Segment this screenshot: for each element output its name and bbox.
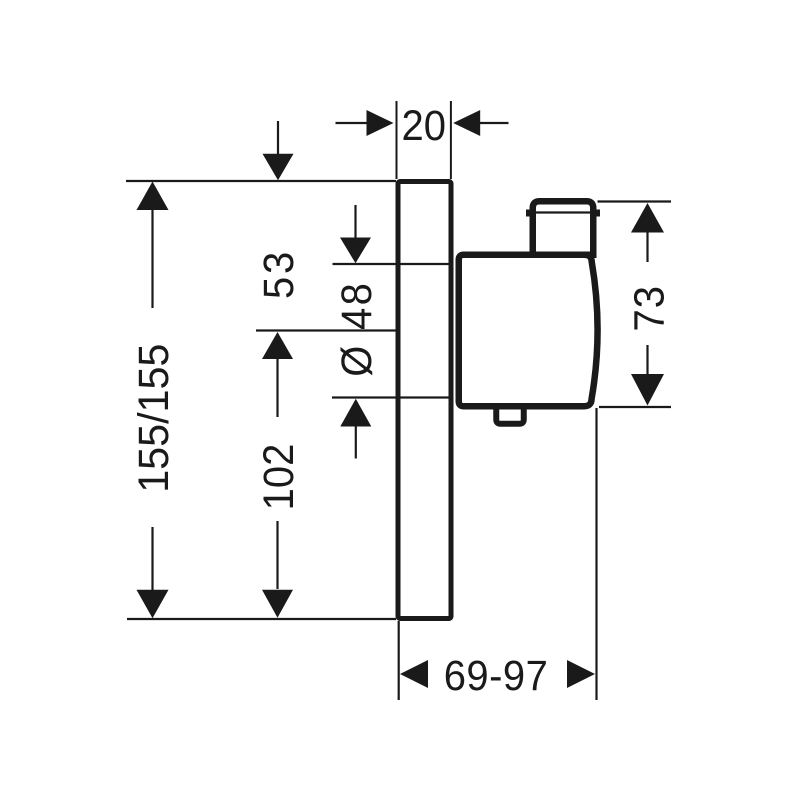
dimension 73 top arrowhead [631, 203, 664, 233]
bottom tab T1 [496, 406, 524, 424]
dimension 102 lower stem [276, 521, 278, 589]
handle stub H1 [533, 201, 594, 255]
dimension 48 bottom arrow stem [355, 425, 357, 459]
dimension 48 top arrow stem [354, 205, 356, 238]
svg-text:73: 73 [624, 285, 673, 331]
dimension 20 left arrowhead [367, 110, 394, 136]
dimension 53 top arrowhead [263, 154, 294, 180]
dimension 73 upper stem [646, 232, 648, 263]
dimension 155/155 bottom arrowhead [137, 590, 169, 619]
wire diameter bottom tangent line [332, 396, 449, 398]
dimension 20 left extension line [396, 101, 398, 179]
dimension 73 bottom extension line [599, 406, 671, 408]
dimension 69-97 left extension line [398, 621, 400, 700]
wall plate P1 [398, 182, 451, 619]
dimension 69-97 right extension line [595, 408, 597, 700]
handle left nub [526, 210, 531, 217]
wire center reference line [256, 329, 396, 331]
dimension 20 left stem [336, 122, 367, 124]
dimension 73 bottom arrowhead [631, 374, 664, 406]
dimension 73 lower stem [646, 345, 648, 374]
valve body B1 [459, 255, 598, 407]
dimension 69-97 right arrowhead [567, 660, 595, 688]
dimension 102 bottom arrowhead [262, 590, 293, 618]
dimension 20 right arrowhead [453, 110, 480, 136]
svg-text:102: 102 [254, 444, 303, 511]
svg-text:69-97: 69-97 [444, 651, 549, 700]
wire top reference line [126, 180, 396, 182]
svg-text:Ø 48: Ø 48 [332, 281, 381, 377]
wire diameter top tangent line [333, 263, 449, 265]
dimension 20 right extension line [450, 101, 452, 179]
wire bottom reference line [127, 618, 396, 620]
dimension 53 top arrow stem [277, 121, 279, 154]
handle seam line [536, 211, 591, 213]
dimension 48 bottom arrowhead [340, 399, 371, 427]
dimension 48 top arrowhead [340, 238, 371, 264]
dimension 155/155 top arrowhead [137, 182, 169, 211]
dimension 102 top arrowhead (shared with 53) [262, 332, 293, 359]
dimension 155/155 line upper segment [151, 209, 153, 308]
svg-text:53: 53 [254, 249, 303, 299]
handle right nub [595, 210, 600, 217]
dimension 155/155 line lower segment [151, 527, 153, 590]
dimension 102 upper stem [276, 358, 278, 417]
dimension 20 right stem [480, 122, 509, 124]
svg-text:20: 20 [402, 101, 446, 150]
dimension 73 top extension line [598, 200, 672, 202]
dimension 69-97 left arrowhead [400, 660, 428, 688]
svg-text:155/155: 155/155 [129, 344, 177, 493]
